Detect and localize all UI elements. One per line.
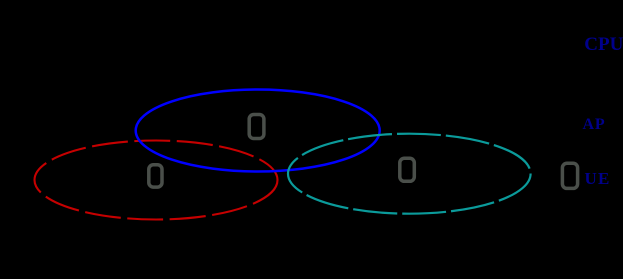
UE icon 1 (inside blue ellipse) <box>249 115 264 139</box>
ellipse cluster teal (AP cluster 3) <box>288 134 531 214</box>
ellipse cluster blue (AP cluster 2) <box>136 90 380 172</box>
svg-text:CPU: CPU <box>584 34 623 55</box>
svg-text:UE: UE <box>585 169 611 188</box>
UE icon 3 (inside teal ellipse) <box>400 158 415 181</box>
ellipse cluster red (AP cluster 1) <box>35 141 278 220</box>
svg-text:AP: AP <box>583 116 606 133</box>
legend UE icon <box>562 163 577 188</box>
UE icon 2 (inside red ellipse) <box>149 165 162 187</box>
